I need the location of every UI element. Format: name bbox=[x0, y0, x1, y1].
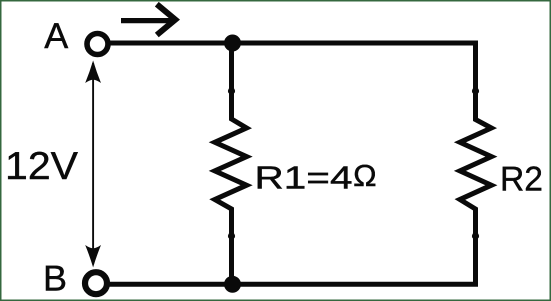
wire: bottom (B to bottom-right corner) bbox=[106, 282, 476, 287]
junction dot bottom bbox=[224, 276, 241, 293]
lead joint bump R1 top bbox=[228, 88, 235, 95]
svg-text:Ω: Ω bbox=[353, 159, 377, 193]
lead joint bump R2 bottom bbox=[472, 233, 479, 240]
junction dot top bbox=[224, 35, 241, 52]
svg-text:R1=4: R1=4 bbox=[255, 159, 353, 195]
resistor R2 with leads (right branch) bbox=[460, 43, 492, 284]
svg-text:12V: 12V bbox=[5, 145, 78, 188]
lead joint bump R2 top bbox=[472, 88, 479, 95]
resistor R1 with leads (middle branch) bbox=[215, 43, 247, 284]
wire: top (A to top-right corner) bbox=[107, 41, 476, 46]
terminal B bbox=[85, 272, 107, 294]
lead joint bump R1 bottom bbox=[228, 233, 235, 240]
svg-text:B: B bbox=[43, 257, 67, 298]
svg-text:A: A bbox=[44, 15, 68, 56]
svg-text:R2: R2 bbox=[500, 161, 543, 199]
voltage double arrow bbox=[85, 61, 101, 268]
terminal A bbox=[87, 34, 108, 55]
current direction arrow bbox=[121, 4, 175, 35]
